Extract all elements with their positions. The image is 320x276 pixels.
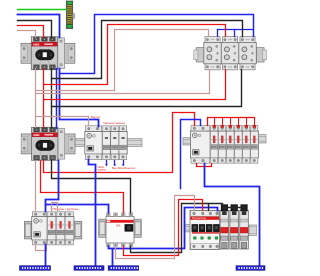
- wire black drop FU3: [244, 208, 246, 211]
- wire blue QF4 to KM1: [109, 208, 218, 249]
- DIN rail between QS2 and RCD group QF1: [63, 139, 86, 147]
- wire pink return F1 module1: [36, 70, 210, 94]
- neutral busbar N4: [236, 266, 265, 271]
- wire black fuse bus: [223, 207, 245, 209]
- surge module 1: [205, 37, 220, 43]
- MCB QF3.3: [65, 212, 74, 245]
- wire pink branch to QF1 RCD: [36, 117, 89, 126]
- wire red drop QF2.6: [254, 118, 256, 126]
- wire blue QF1 RCD to N bar 2: [89, 160, 96, 266]
- wire black QF4 to KM1 fuse bus: [131, 204, 223, 253]
- PE terminal strip XT1: [66, 1, 74, 29]
- breaker QF2.6: [250, 125, 258, 163]
- wire black QS2 to QF4: [52, 161, 131, 213]
- svg-text:ABB: ABB: [33, 133, 40, 137]
- wire L1 pink QS1 to QS2: [35, 69, 37, 128]
- wire red QS2 riser to QF2 RCD: [44, 113, 195, 173]
- motor breaker KM1: [190, 210, 220, 249]
- wire blue bus over F1: [218, 29, 254, 31]
- breaker QF2.2: [218, 125, 226, 163]
- wire red QF4 to KM1: [124, 200, 203, 256]
- wire blue QF2 RCD to N bar 4: [205, 164, 260, 266]
- wire blue drop F1 module1: [217, 30, 219, 37]
- svg-text:Подключение генератора: Подключение генератора: [103, 121, 125, 125]
- RCD QF3: [24, 221, 31, 239]
- wire blue drop to N bar 3: [112, 249, 114, 266]
- svg-text:Общие группы: Общие группы: [51, 207, 79, 211]
- wire black drop FU2: [234, 208, 236, 211]
- main disconnect switch QS1: [21, 37, 75, 70]
- surge module 2: [223, 37, 238, 43]
- wire N blue feeder to QS1: [18, 15, 60, 38]
- fuse holder FU2: [230, 205, 239, 249]
- RCD QF2: [190, 126, 210, 164]
- wire black return F1 module3: [52, 70, 242, 107]
- RCD QF1: [85, 126, 103, 160]
- wire blue stub QF1.3: [123, 161, 125, 165]
- wire red drop QF2.3: [230, 118, 232, 126]
- wire blue stub QF1.1: [106, 161, 108, 165]
- wire blue feed QF2 RCD: [181, 120, 201, 189]
- neutral busbar N2: [74, 266, 104, 271]
- MCB QF1.2: [111, 126, 119, 160]
- wire blue drop F1 module2: [234, 30, 236, 37]
- surge arrester block F1: [194, 37, 267, 70]
- wire pink QS2 down to QF3 RCD: [35, 161, 37, 212]
- wire L1 pink feeder to QS1: [18, 31, 36, 38]
- wire blue stub QF1.2: [114, 161, 116, 165]
- wire red QS2 to QF4: [41, 161, 124, 213]
- MCB QF1.1: [102, 126, 110, 160]
- neutral busbar N3: [108, 266, 138, 271]
- wire black drop FU1: [224, 208, 226, 211]
- wire PE green feeder: [18, 9, 67, 11]
- breaker QF2.3: [226, 125, 234, 163]
- breaker QF2.4: [234, 125, 242, 163]
- fuse holder FU1: [220, 205, 229, 249]
- wire black loop QS1 to F1 module3: [52, 21, 243, 79]
- wire red loop QS1 to F1 module2: [44, 25, 226, 85]
- svg-text:Ввод. Работа/Генератор: Ввод. Работа/Генератор: [112, 166, 135, 170]
- wire N blue QS1 to QS2 aux: [56, 69, 58, 129]
- MCB QF3.2: [56, 212, 65, 245]
- MCB QF3.1: [47, 212, 56, 245]
- svg-text:63A: 63A: [116, 224, 121, 227]
- wire pink loop QS1 to F1 module1: [36, 30, 209, 91]
- wire blue loop QS1 to F1 neutral bus: [60, 15, 254, 74]
- 4-pole RCD QF4: [99, 213, 142, 247]
- breaker QF2.5: [242, 125, 250, 163]
- wire L2 red QS1 to QS2: [43, 69, 45, 128]
- DIN rail right of QF2 group: [258, 135, 266, 143]
- DIN rail stub right of fuse group FU: [249, 225, 257, 236]
- changeover disconnect switch QS2: [21, 127, 75, 160]
- wire L3 black feeder to QS1: [18, 21, 52, 38]
- neutral busbar N1: [20, 266, 51, 271]
- wire pink QF4 to KM1: [116, 196, 195, 259]
- svg-text:Пускатель: Пускатель: [192, 217, 207, 220]
- surge module 3: [240, 37, 255, 43]
- wire red drop QF2.4: [238, 118, 240, 126]
- DIN rail left of RCD group QF2: [183, 138, 191, 145]
- wire pink jumper QF3 tops: [52, 203, 58, 212]
- MCB QF1.3: [119, 126, 127, 160]
- wire red bus over QF2: [208, 118, 255, 126]
- svg-text:ABB: ABB: [33, 42, 40, 46]
- wire red drop QF2.2: [222, 118, 224, 126]
- wire L3 black QS1 to QS2: [51, 69, 53, 128]
- wire blue QS2 to QF3 RCD: [46, 161, 59, 212]
- wire blue branch to QF4: [46, 205, 109, 213]
- wire red drop QF2.5: [246, 118, 248, 126]
- DIN rail stub left of contactor KM1: [184, 225, 191, 232]
- wire L2 red feeder to QS1: [18, 26, 44, 38]
- wire red jumper QF2 RCD bottom: [197, 164, 212, 167]
- svg-text:Ввод сети: Ввод сети: [91, 115, 101, 119]
- wire black drop KM1 terminal3: [208, 204, 210, 211]
- wire blue QF3 RCD to N bar 1: [45, 245, 47, 266]
- wire N blue riser to QF1 RCD: [60, 69, 99, 127]
- wire red drop QF2.1: [214, 118, 216, 126]
- wire pink jumper QF3 bottoms: [36, 245, 47, 251]
- DIN rail right of QF1 group: [127, 139, 142, 147]
- breaker QF2.1: [210, 125, 218, 163]
- fuse holder FU3: [240, 205, 249, 249]
- wire red return F1 module2: [44, 70, 226, 100]
- svg-text:группа: группа: [98, 168, 106, 172]
